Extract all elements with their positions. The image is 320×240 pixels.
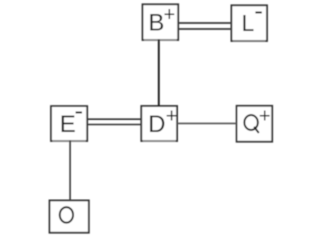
svg-text:E: E xyxy=(60,111,76,138)
node O label O glyph xyxy=(60,207,73,223)
svg-text:+: + xyxy=(164,4,176,26)
wire E-D double bond xyxy=(87,119,141,124)
wire B-L double bond xyxy=(178,23,232,29)
node O box xyxy=(50,200,89,232)
wire D-Q single xyxy=(177,122,237,124)
node Q+ box xyxy=(237,106,273,142)
svg-text:-: - xyxy=(254,0,263,26)
wire B-D vertical xyxy=(158,39,160,106)
svg-text:+: + xyxy=(166,105,178,127)
svg-text:-: - xyxy=(75,96,84,126)
svg-text:+: + xyxy=(259,106,271,128)
node Q+ label Q glyph xyxy=(244,115,258,133)
node D+ box xyxy=(141,106,177,141)
svg-text:B: B xyxy=(148,10,164,37)
wire E-O vertical xyxy=(69,140,71,200)
svg-text:D: D xyxy=(148,111,165,138)
svg-text:L: L xyxy=(242,10,255,36)
node E- box xyxy=(51,106,87,141)
node L- box xyxy=(231,5,267,41)
node B+ box xyxy=(143,4,179,40)
